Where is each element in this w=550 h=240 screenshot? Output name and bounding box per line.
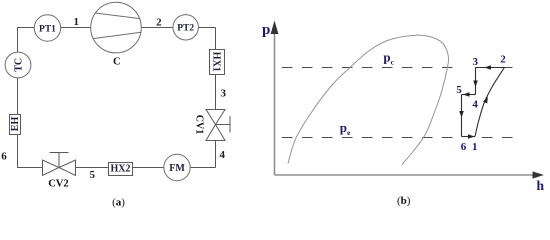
svg-text:C: C	[113, 57, 121, 68]
svg-text:TC: TC	[13, 58, 24, 72]
svg-text:4: 4	[472, 99, 478, 111]
svg-text:p: p	[262, 22, 270, 38]
svg-text:6: 6	[461, 141, 467, 153]
svg-text:3: 3	[220, 88, 226, 100]
svg-text:5: 5	[456, 84, 462, 96]
svg-text:3: 3	[473, 56, 479, 68]
svg-text:FM: FM	[169, 163, 185, 174]
svg-text:(a): (a)	[112, 197, 125, 209]
svg-text:EH: EH	[10, 117, 21, 132]
svg-text:CV1: CV1	[194, 115, 205, 134]
svg-text:PT2: PT2	[177, 24, 194, 34]
svg-text:2: 2	[500, 54, 506, 66]
svg-text:h: h	[537, 178, 545, 193]
svg-text:4: 4	[219, 149, 225, 161]
svg-text:5: 5	[90, 169, 96, 181]
svg-text:CV2: CV2	[48, 178, 68, 189]
svg-text:1: 1	[74, 16, 80, 28]
svg-text:1: 1	[472, 141, 478, 153]
svg-text:PT1: PT1	[39, 24, 56, 34]
svg-text:HX1: HX1	[210, 52, 221, 72]
svg-text:2: 2	[156, 17, 162, 29]
svg-text:HX2: HX2	[111, 163, 131, 174]
svg-text:(b): (b)	[397, 195, 411, 207]
svg-text:6: 6	[1, 151, 7, 163]
